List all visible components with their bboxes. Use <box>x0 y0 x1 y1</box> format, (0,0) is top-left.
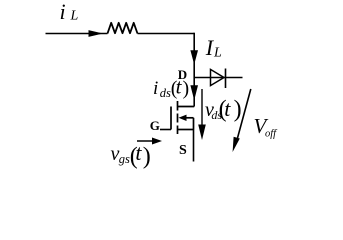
MOSFET Q1 body-source tie <box>193 118 195 130</box>
svg-text:L: L <box>70 9 79 24</box>
diode D1 (triangle) <box>211 69 225 85</box>
voltage arrow V_off <box>233 89 251 152</box>
current arrow i_ds(t) <box>190 85 198 100</box>
svg-text:t: t <box>224 96 231 121</box>
MOSFET Q1 gate bar <box>170 107 172 130</box>
svg-text:off: off <box>265 129 278 140</box>
current arrow I_L <box>190 50 198 64</box>
MOSFET Q1 source segment <box>178 129 194 131</box>
MOSFET Q1 channel middle <box>177 114 179 123</box>
MOSFET Q1 <box>171 101 194 134</box>
label V_off <box>254 114 279 140</box>
wire: main vertical drain wire <box>193 33 195 107</box>
svg-text:G: G <box>150 118 160 133</box>
svg-text:): ) <box>183 77 190 99</box>
label v_gs(t) <box>111 140 151 170</box>
svg-text:i: i <box>60 0 66 24</box>
label i_L <box>60 0 79 24</box>
arrow: gate drive v_gs <box>137 138 162 145</box>
MOSFET Q1 drain segment <box>178 106 195 108</box>
wire: input to inductor <box>46 33 108 35</box>
MOSFET Q1 body arrow line <box>184 117 194 119</box>
current arrow i_L on wire <box>89 30 104 37</box>
svg-text:L: L <box>213 46 222 61</box>
voltage arrow v_ds(t) <box>198 89 206 140</box>
svg-text:): ) <box>143 144 151 170</box>
inductor L (zigzag) <box>108 23 138 34</box>
MOSFET Q1 channel top <box>177 101 179 111</box>
MOSFET Q1 body arrowhead <box>179 115 187 121</box>
label I_L <box>205 35 222 61</box>
svg-text:): ) <box>234 96 242 122</box>
svg-text:ds: ds <box>160 86 171 100</box>
diode D1 cathode bar <box>225 69 227 89</box>
label v_ds(t) <box>205 96 242 122</box>
MOSFET Q1 channel bottom <box>177 126 179 135</box>
svg-text:t: t <box>135 140 142 165</box>
wire: diode branch <box>194 77 242 79</box>
wire: inductor to top corner <box>138 33 195 35</box>
svg-text:S: S <box>179 143 187 158</box>
wire: gate lead <box>160 129 171 131</box>
label i_ds(t) <box>153 75 189 100</box>
wire: source lead <box>193 130 195 162</box>
svg-text:i: i <box>153 78 158 99</box>
svg-text:gs: gs <box>119 152 130 166</box>
